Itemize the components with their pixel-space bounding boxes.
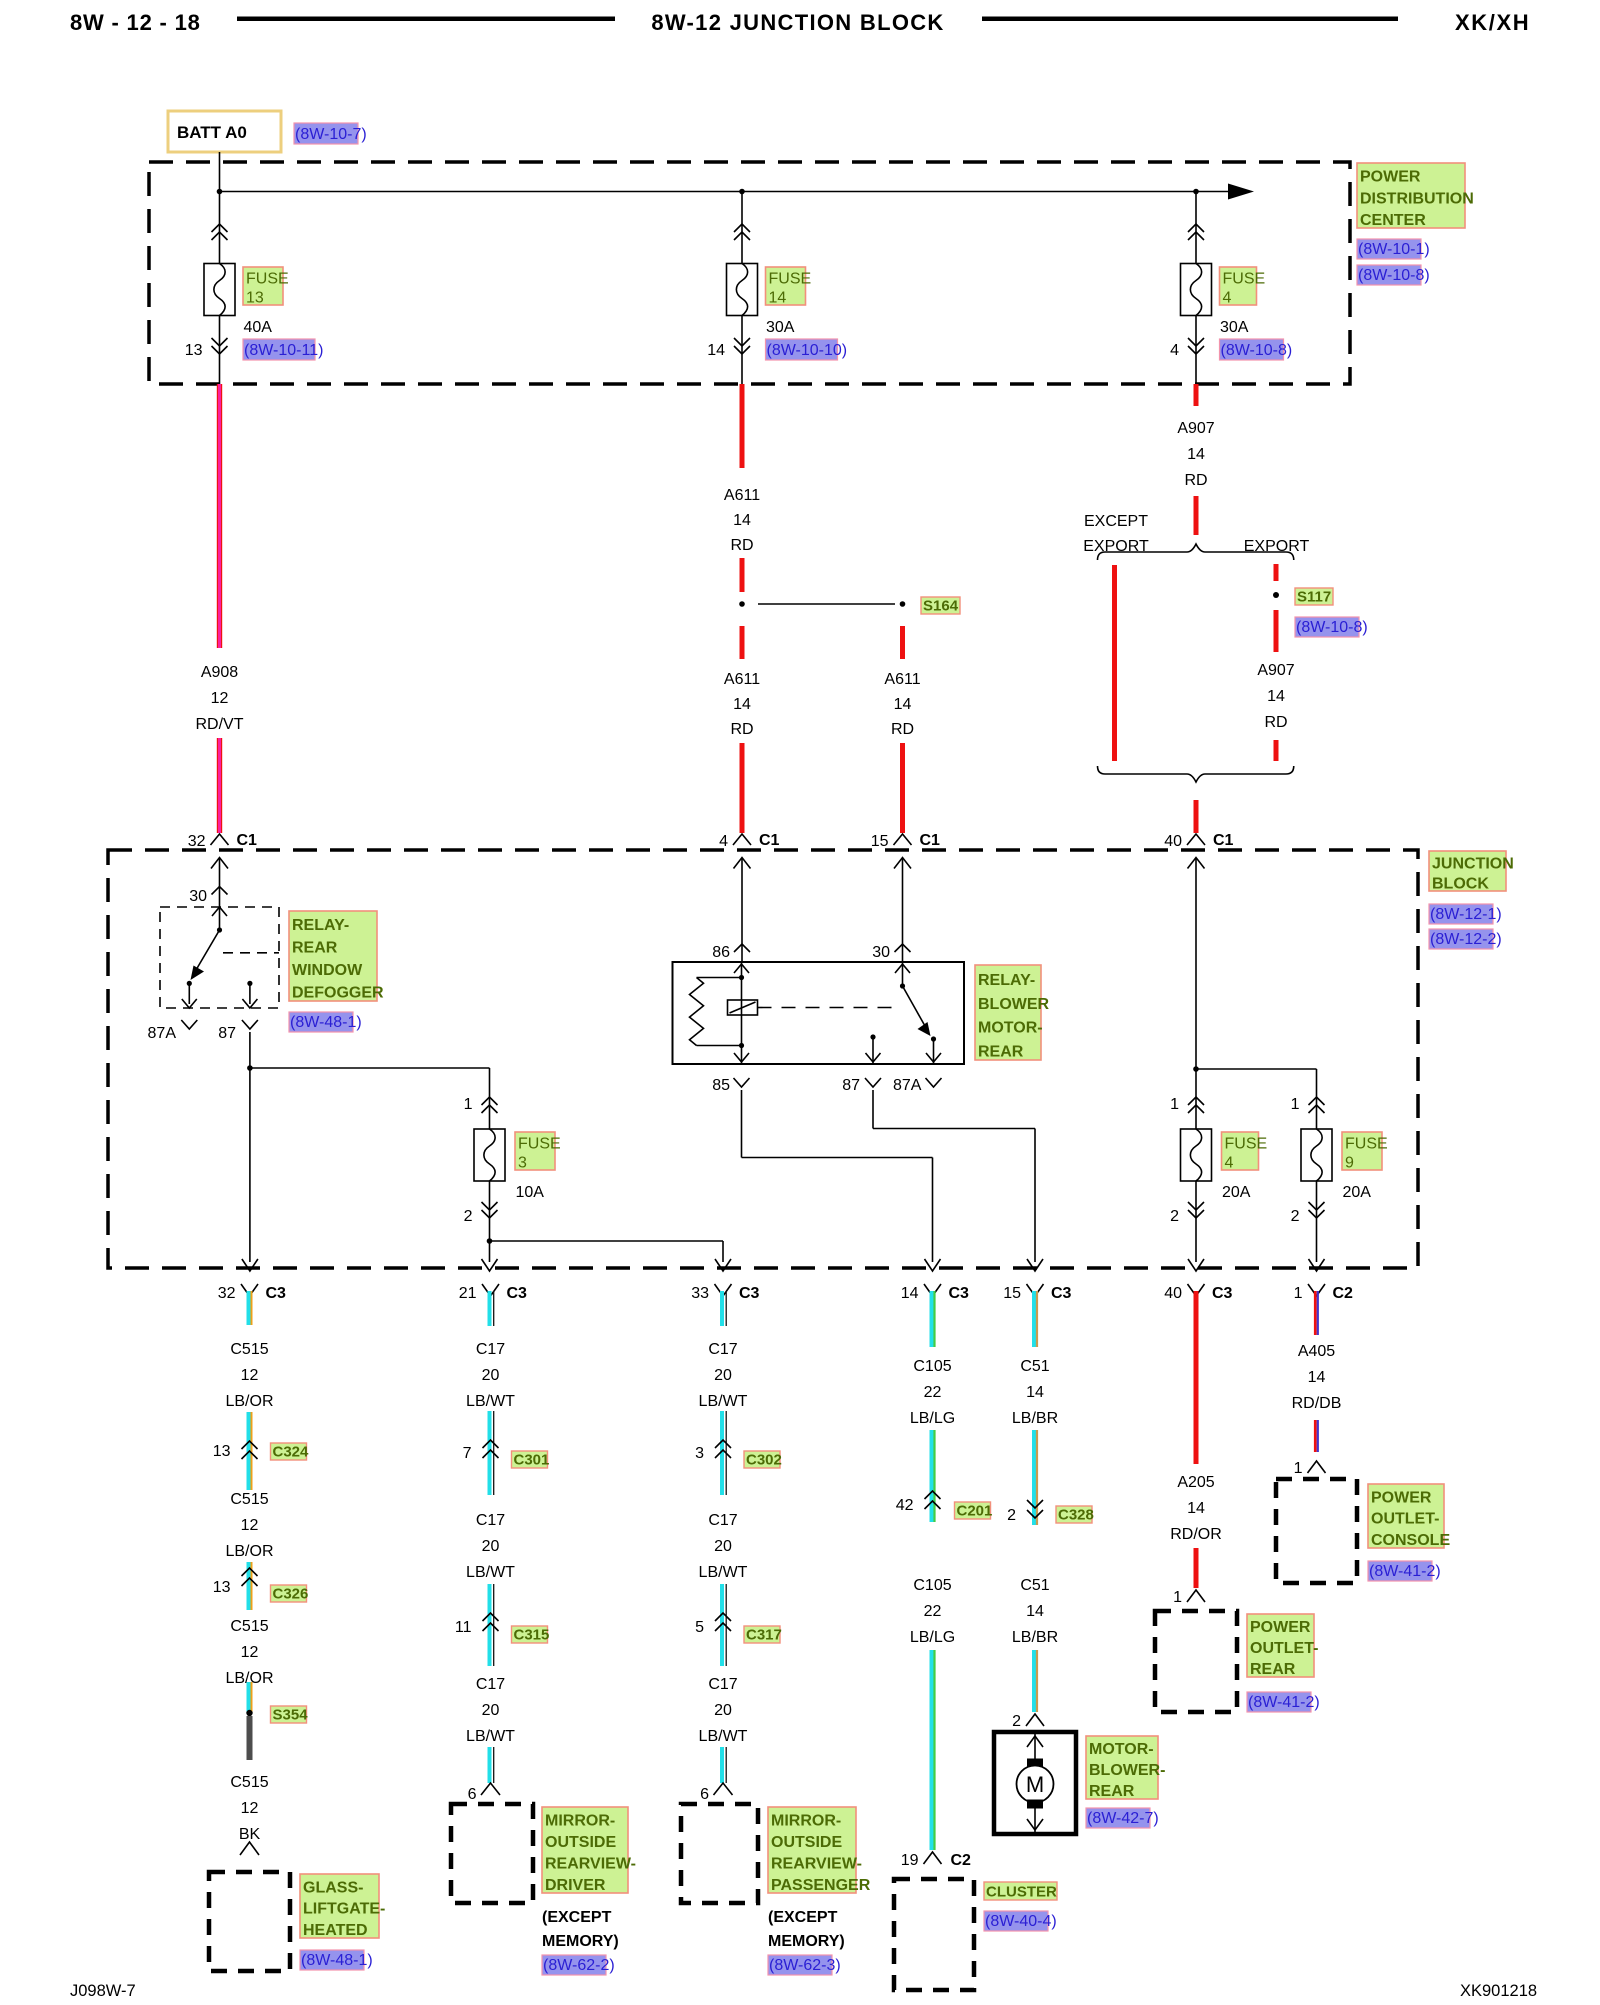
svg-text:C515: C515 xyxy=(230,1774,268,1791)
svg-text:LB/WT: LB/WT xyxy=(699,1393,748,1410)
svg-text:20: 20 xyxy=(714,1702,732,1719)
svg-text:MIRROR-: MIRROR- xyxy=(771,1812,841,1829)
svg-text:LB/BR: LB/BR xyxy=(1012,1629,1058,1646)
svg-text:20: 20 xyxy=(714,1538,732,1555)
svg-text:(8W-10-11): (8W-10-11) xyxy=(244,342,323,359)
svg-text:33: 33 xyxy=(691,1285,709,1302)
svg-text:13: 13 xyxy=(213,1579,231,1596)
svg-text:C1: C1 xyxy=(1213,832,1234,849)
svg-text:1: 1 xyxy=(1291,1096,1300,1113)
svg-text:C51: C51 xyxy=(1020,1358,1049,1375)
svg-text:10A: 10A xyxy=(516,1184,545,1201)
svg-text:9: 9 xyxy=(1345,1155,1354,1172)
svg-text:4: 4 xyxy=(1170,342,1179,359)
svg-text:LB/WT: LB/WT xyxy=(466,1564,515,1581)
svg-text:(8W-41-2): (8W-41-2) xyxy=(1369,1563,1441,1580)
svg-text:14: 14 xyxy=(1267,688,1285,705)
svg-text:14: 14 xyxy=(733,696,751,713)
svg-text:MOTOR-: MOTOR- xyxy=(1089,1741,1154,1758)
svg-text:LIFTGATE-: LIFTGATE- xyxy=(303,1901,385,1918)
svg-text:1: 1 xyxy=(1294,1285,1303,1302)
svg-text:4: 4 xyxy=(1225,1155,1234,1172)
svg-text:OUTSIDE: OUTSIDE xyxy=(771,1834,842,1851)
svg-text:C17: C17 xyxy=(476,1676,505,1693)
svg-text:RD: RD xyxy=(891,721,914,738)
svg-text:C3: C3 xyxy=(266,1285,287,1302)
svg-text:POWER: POWER xyxy=(1250,1619,1311,1636)
svg-text:2: 2 xyxy=(1291,1208,1300,1225)
svg-text:15: 15 xyxy=(1003,1285,1021,1302)
svg-text:XK/XH: XK/XH xyxy=(1455,10,1530,35)
svg-text:30A: 30A xyxy=(1220,319,1249,336)
svg-text:20: 20 xyxy=(482,1702,500,1719)
svg-text:42: 42 xyxy=(896,1497,914,1514)
svg-text:20A: 20A xyxy=(1222,1184,1251,1201)
svg-text:(EXCEPT: (EXCEPT xyxy=(768,1909,838,1926)
svg-text:CONSOLE: CONSOLE xyxy=(1371,1532,1450,1549)
svg-text:OUTLET-: OUTLET- xyxy=(1250,1640,1318,1657)
svg-text:12: 12 xyxy=(211,690,229,707)
svg-text:FUSE: FUSE xyxy=(518,1136,561,1153)
svg-text:JUNCTION: JUNCTION xyxy=(1432,855,1514,872)
svg-text:C2: C2 xyxy=(1333,1285,1354,1302)
svg-text:EXPORT: EXPORT xyxy=(1244,538,1310,555)
svg-text:87: 87 xyxy=(218,1025,236,1042)
svg-text:S354: S354 xyxy=(273,1707,309,1724)
svg-text:(8W-10-7): (8W-10-7) xyxy=(295,126,367,143)
svg-text:14: 14 xyxy=(1026,1384,1044,1401)
svg-text:A405: A405 xyxy=(1298,1343,1335,1360)
svg-text:32: 32 xyxy=(218,1285,236,1302)
svg-text:POWER: POWER xyxy=(1360,169,1421,186)
svg-text:13: 13 xyxy=(246,290,264,307)
svg-text:87: 87 xyxy=(842,1077,860,1094)
svg-text:LB/WT: LB/WT xyxy=(699,1728,748,1745)
svg-text:EXPORT: EXPORT xyxy=(1083,538,1149,555)
svg-text:14: 14 xyxy=(1026,1603,1044,1620)
svg-text:DEFOGGER: DEFOGGER xyxy=(292,985,384,1002)
svg-text:BLOCK: BLOCK xyxy=(1432,875,1489,892)
svg-text:FUSE: FUSE xyxy=(769,271,812,288)
svg-text:14: 14 xyxy=(901,1285,919,1302)
svg-text:C201: C201 xyxy=(957,1503,993,1520)
svg-text:32: 32 xyxy=(188,833,206,850)
svg-text:6: 6 xyxy=(700,1786,709,1803)
svg-text:S117: S117 xyxy=(1297,589,1331,606)
svg-text:87A: 87A xyxy=(148,1025,177,1042)
svg-text:C301: C301 xyxy=(514,1452,550,1469)
svg-text:14: 14 xyxy=(707,342,725,359)
svg-text:FUSE: FUSE xyxy=(246,271,289,288)
svg-text:12: 12 xyxy=(241,1644,259,1661)
svg-text:RD: RD xyxy=(730,537,753,554)
svg-text:A907: A907 xyxy=(1177,420,1214,437)
svg-text:8W-12 JUNCTION BLOCK: 8W-12 JUNCTION BLOCK xyxy=(651,10,944,35)
svg-text:(8W-10-8): (8W-10-8) xyxy=(1358,267,1430,284)
svg-text:RELAY-: RELAY- xyxy=(978,972,1035,989)
svg-text:A205: A205 xyxy=(1177,1474,1214,1491)
svg-text:C324: C324 xyxy=(273,1444,310,1461)
svg-text:13: 13 xyxy=(185,342,203,359)
svg-text:LB/BR: LB/BR xyxy=(1012,1410,1058,1427)
svg-text:RD: RD xyxy=(730,721,753,738)
svg-text:4: 4 xyxy=(1223,290,1232,307)
svg-text:2: 2 xyxy=(464,1208,473,1225)
svg-text:CLUSTER: CLUSTER xyxy=(986,1884,1057,1901)
svg-text:14: 14 xyxy=(1308,1369,1326,1386)
svg-text:M: M xyxy=(1026,1772,1044,1797)
svg-text:REAR: REAR xyxy=(1089,1783,1135,1800)
svg-text:RD/OR: RD/OR xyxy=(1170,1526,1222,1543)
svg-text:12: 12 xyxy=(241,1800,259,1817)
svg-text:BATT A0: BATT A0 xyxy=(177,123,247,142)
svg-text:1: 1 xyxy=(1173,1589,1182,1606)
svg-text:C515: C515 xyxy=(230,1491,268,1508)
svg-text:A907: A907 xyxy=(1257,662,1294,679)
svg-text:LB/OR: LB/OR xyxy=(225,1543,273,1560)
svg-text:(8W-62-2): (8W-62-2) xyxy=(543,1957,615,1974)
svg-text:C2: C2 xyxy=(951,1852,972,1869)
svg-text:5: 5 xyxy=(695,1619,704,1636)
svg-text:22: 22 xyxy=(924,1384,942,1401)
svg-text:EXCEPT: EXCEPT xyxy=(1084,513,1148,530)
svg-text:HEATED: HEATED xyxy=(303,1922,368,1939)
svg-text:C317: C317 xyxy=(746,1627,782,1644)
svg-text:FUSE: FUSE xyxy=(1225,1136,1268,1153)
svg-text:REARVIEW-: REARVIEW- xyxy=(771,1855,862,1872)
svg-text:C1: C1 xyxy=(920,832,941,849)
svg-text:1: 1 xyxy=(1170,1096,1179,1113)
svg-text:12: 12 xyxy=(241,1367,259,1384)
svg-text:PASSENGER: PASSENGER xyxy=(771,1877,871,1894)
svg-text:RELAY-: RELAY- xyxy=(292,917,349,934)
svg-text:30A: 30A xyxy=(766,319,795,336)
svg-text:MOTOR-: MOTOR- xyxy=(978,1020,1043,1037)
svg-text:OUTLET-: OUTLET- xyxy=(1371,1511,1439,1528)
svg-text:RD/DB: RD/DB xyxy=(1292,1395,1342,1412)
svg-text:2: 2 xyxy=(1012,1713,1021,1730)
svg-text:C1: C1 xyxy=(237,832,258,849)
svg-text:30: 30 xyxy=(189,888,207,905)
svg-text:40: 40 xyxy=(1164,833,1182,850)
svg-text:19: 19 xyxy=(901,1852,919,1869)
svg-text:20: 20 xyxy=(482,1538,500,1555)
svg-text:3: 3 xyxy=(695,1445,704,1462)
svg-text:40A: 40A xyxy=(244,319,273,336)
svg-text:30: 30 xyxy=(872,944,890,961)
svg-text:14: 14 xyxy=(1187,1500,1205,1517)
svg-text:20: 20 xyxy=(714,1367,732,1384)
svg-text:(8W-10-8): (8W-10-8) xyxy=(1221,342,1293,359)
svg-text:14: 14 xyxy=(769,290,787,307)
svg-text:2: 2 xyxy=(1007,1507,1016,1524)
svg-text:(8W-62-3): (8W-62-3) xyxy=(769,1957,841,1974)
svg-text:XK901218: XK901218 xyxy=(1460,1982,1537,2000)
svg-text:20A: 20A xyxy=(1343,1184,1372,1201)
svg-text:CENTER: CENTER xyxy=(1360,212,1426,229)
svg-text:3: 3 xyxy=(518,1155,527,1172)
svg-text:S164: S164 xyxy=(923,598,959,615)
svg-text:7: 7 xyxy=(463,1445,472,1462)
svg-text:1: 1 xyxy=(1294,1460,1303,1477)
svg-text:LB/OR: LB/OR xyxy=(225,1393,273,1410)
svg-text:REARVIEW-: REARVIEW- xyxy=(545,1855,636,1872)
svg-text:MEMORY): MEMORY) xyxy=(542,1933,619,1950)
svg-text:C315: C315 xyxy=(514,1627,550,1644)
svg-text:DRIVER: DRIVER xyxy=(545,1877,606,1894)
svg-text:C515: C515 xyxy=(230,1341,268,1358)
svg-text:C328: C328 xyxy=(1058,1507,1094,1524)
svg-text:C17: C17 xyxy=(708,1341,737,1358)
svg-text:C105: C105 xyxy=(913,1358,951,1375)
svg-text:LB/WT: LB/WT xyxy=(466,1728,515,1745)
svg-text:FUSE: FUSE xyxy=(1223,271,1266,288)
svg-text:C3: C3 xyxy=(949,1285,970,1302)
svg-text:87A: 87A xyxy=(893,1077,922,1094)
svg-text:(8W-10-8): (8W-10-8) xyxy=(1296,619,1368,636)
svg-text:2: 2 xyxy=(1170,1208,1179,1225)
svg-text:12: 12 xyxy=(241,1517,259,1534)
svg-text:C3: C3 xyxy=(1212,1285,1233,1302)
svg-text:REAR: REAR xyxy=(1250,1661,1296,1678)
svg-text:86: 86 xyxy=(712,944,730,961)
svg-text:C326: C326 xyxy=(273,1586,309,1603)
svg-text:C17: C17 xyxy=(708,1676,737,1693)
svg-text:C17: C17 xyxy=(476,1512,505,1529)
svg-text:J098W-7: J098W-7 xyxy=(70,1982,136,2000)
svg-text:C3: C3 xyxy=(1051,1285,1072,1302)
svg-text:(8W-48-1): (8W-48-1) xyxy=(301,1952,373,1969)
svg-text:BK: BK xyxy=(239,1826,261,1843)
svg-text:LB/WT: LB/WT xyxy=(466,1393,515,1410)
svg-text:RD/VT: RD/VT xyxy=(196,716,244,733)
svg-text:15: 15 xyxy=(871,833,889,850)
svg-text:WINDOW: WINDOW xyxy=(292,962,363,979)
svg-text:A908: A908 xyxy=(201,664,238,681)
svg-text:A611: A611 xyxy=(884,671,920,688)
svg-text:OUTSIDE: OUTSIDE xyxy=(545,1834,616,1851)
svg-text:40: 40 xyxy=(1164,1285,1182,1302)
svg-text:(8W-42-7): (8W-42-7) xyxy=(1087,1810,1159,1827)
svg-text:MEMORY): MEMORY) xyxy=(768,1933,845,1950)
svg-text:13: 13 xyxy=(213,1443,231,1460)
svg-text:MIRROR-: MIRROR- xyxy=(545,1812,615,1829)
svg-text:C51: C51 xyxy=(1020,1577,1049,1594)
svg-text:(8W-40-4): (8W-40-4) xyxy=(985,1913,1057,1930)
svg-text:1: 1 xyxy=(464,1096,473,1113)
svg-text:A611: A611 xyxy=(724,671,760,688)
svg-text:A611: A611 xyxy=(724,487,760,504)
svg-text:6: 6 xyxy=(468,1786,477,1803)
svg-text:14: 14 xyxy=(733,512,751,529)
svg-text:(8W-12-1): (8W-12-1) xyxy=(1430,906,1502,923)
svg-text:14: 14 xyxy=(1187,446,1205,463)
svg-text:REAR: REAR xyxy=(292,940,338,957)
svg-text:4: 4 xyxy=(719,833,728,850)
svg-text:(8W-41-2): (8W-41-2) xyxy=(1248,1694,1320,1711)
svg-text:(8W-12-2): (8W-12-2) xyxy=(1430,931,1502,948)
svg-text:C105: C105 xyxy=(913,1577,951,1594)
svg-text:21: 21 xyxy=(459,1285,477,1302)
svg-text:20: 20 xyxy=(482,1367,500,1384)
svg-text:LB/WT: LB/WT xyxy=(699,1564,748,1581)
svg-text:LB/LG: LB/LG xyxy=(910,1629,955,1646)
svg-text:C1: C1 xyxy=(759,832,780,849)
svg-text:RD: RD xyxy=(1264,714,1287,731)
svg-text:8W - 12 - 18: 8W - 12 - 18 xyxy=(70,10,201,35)
svg-text:(8W-48-1): (8W-48-1) xyxy=(290,1014,362,1031)
svg-text:GLASS-: GLASS- xyxy=(303,1879,363,1896)
svg-text:14: 14 xyxy=(894,696,912,713)
svg-text:FUSE: FUSE xyxy=(1345,1136,1388,1153)
svg-text:11: 11 xyxy=(455,1619,472,1636)
svg-text:C17: C17 xyxy=(708,1512,737,1529)
svg-text:85: 85 xyxy=(712,1077,730,1094)
svg-text:(8W-10-1): (8W-10-1) xyxy=(1358,241,1430,258)
svg-text:22: 22 xyxy=(924,1603,942,1620)
svg-text:C3: C3 xyxy=(507,1285,528,1302)
svg-text:C302: C302 xyxy=(746,1452,782,1469)
svg-text:(8W-10-10): (8W-10-10) xyxy=(767,342,848,359)
svg-text:BLOWER-: BLOWER- xyxy=(1089,1762,1165,1779)
svg-text:BLOWER: BLOWER xyxy=(978,996,1050,1013)
svg-text:C17: C17 xyxy=(476,1341,505,1358)
svg-text:C3: C3 xyxy=(739,1285,760,1302)
svg-text:RD: RD xyxy=(1184,472,1207,489)
svg-text:C515: C515 xyxy=(230,1618,268,1635)
svg-text:(EXCEPT: (EXCEPT xyxy=(542,1909,612,1926)
svg-text:LB/LG: LB/LG xyxy=(910,1410,955,1427)
svg-text:POWER: POWER xyxy=(1371,1489,1432,1506)
svg-text:DISTRIBUTION: DISTRIBUTION xyxy=(1360,190,1474,207)
svg-text:REAR: REAR xyxy=(978,1043,1024,1060)
